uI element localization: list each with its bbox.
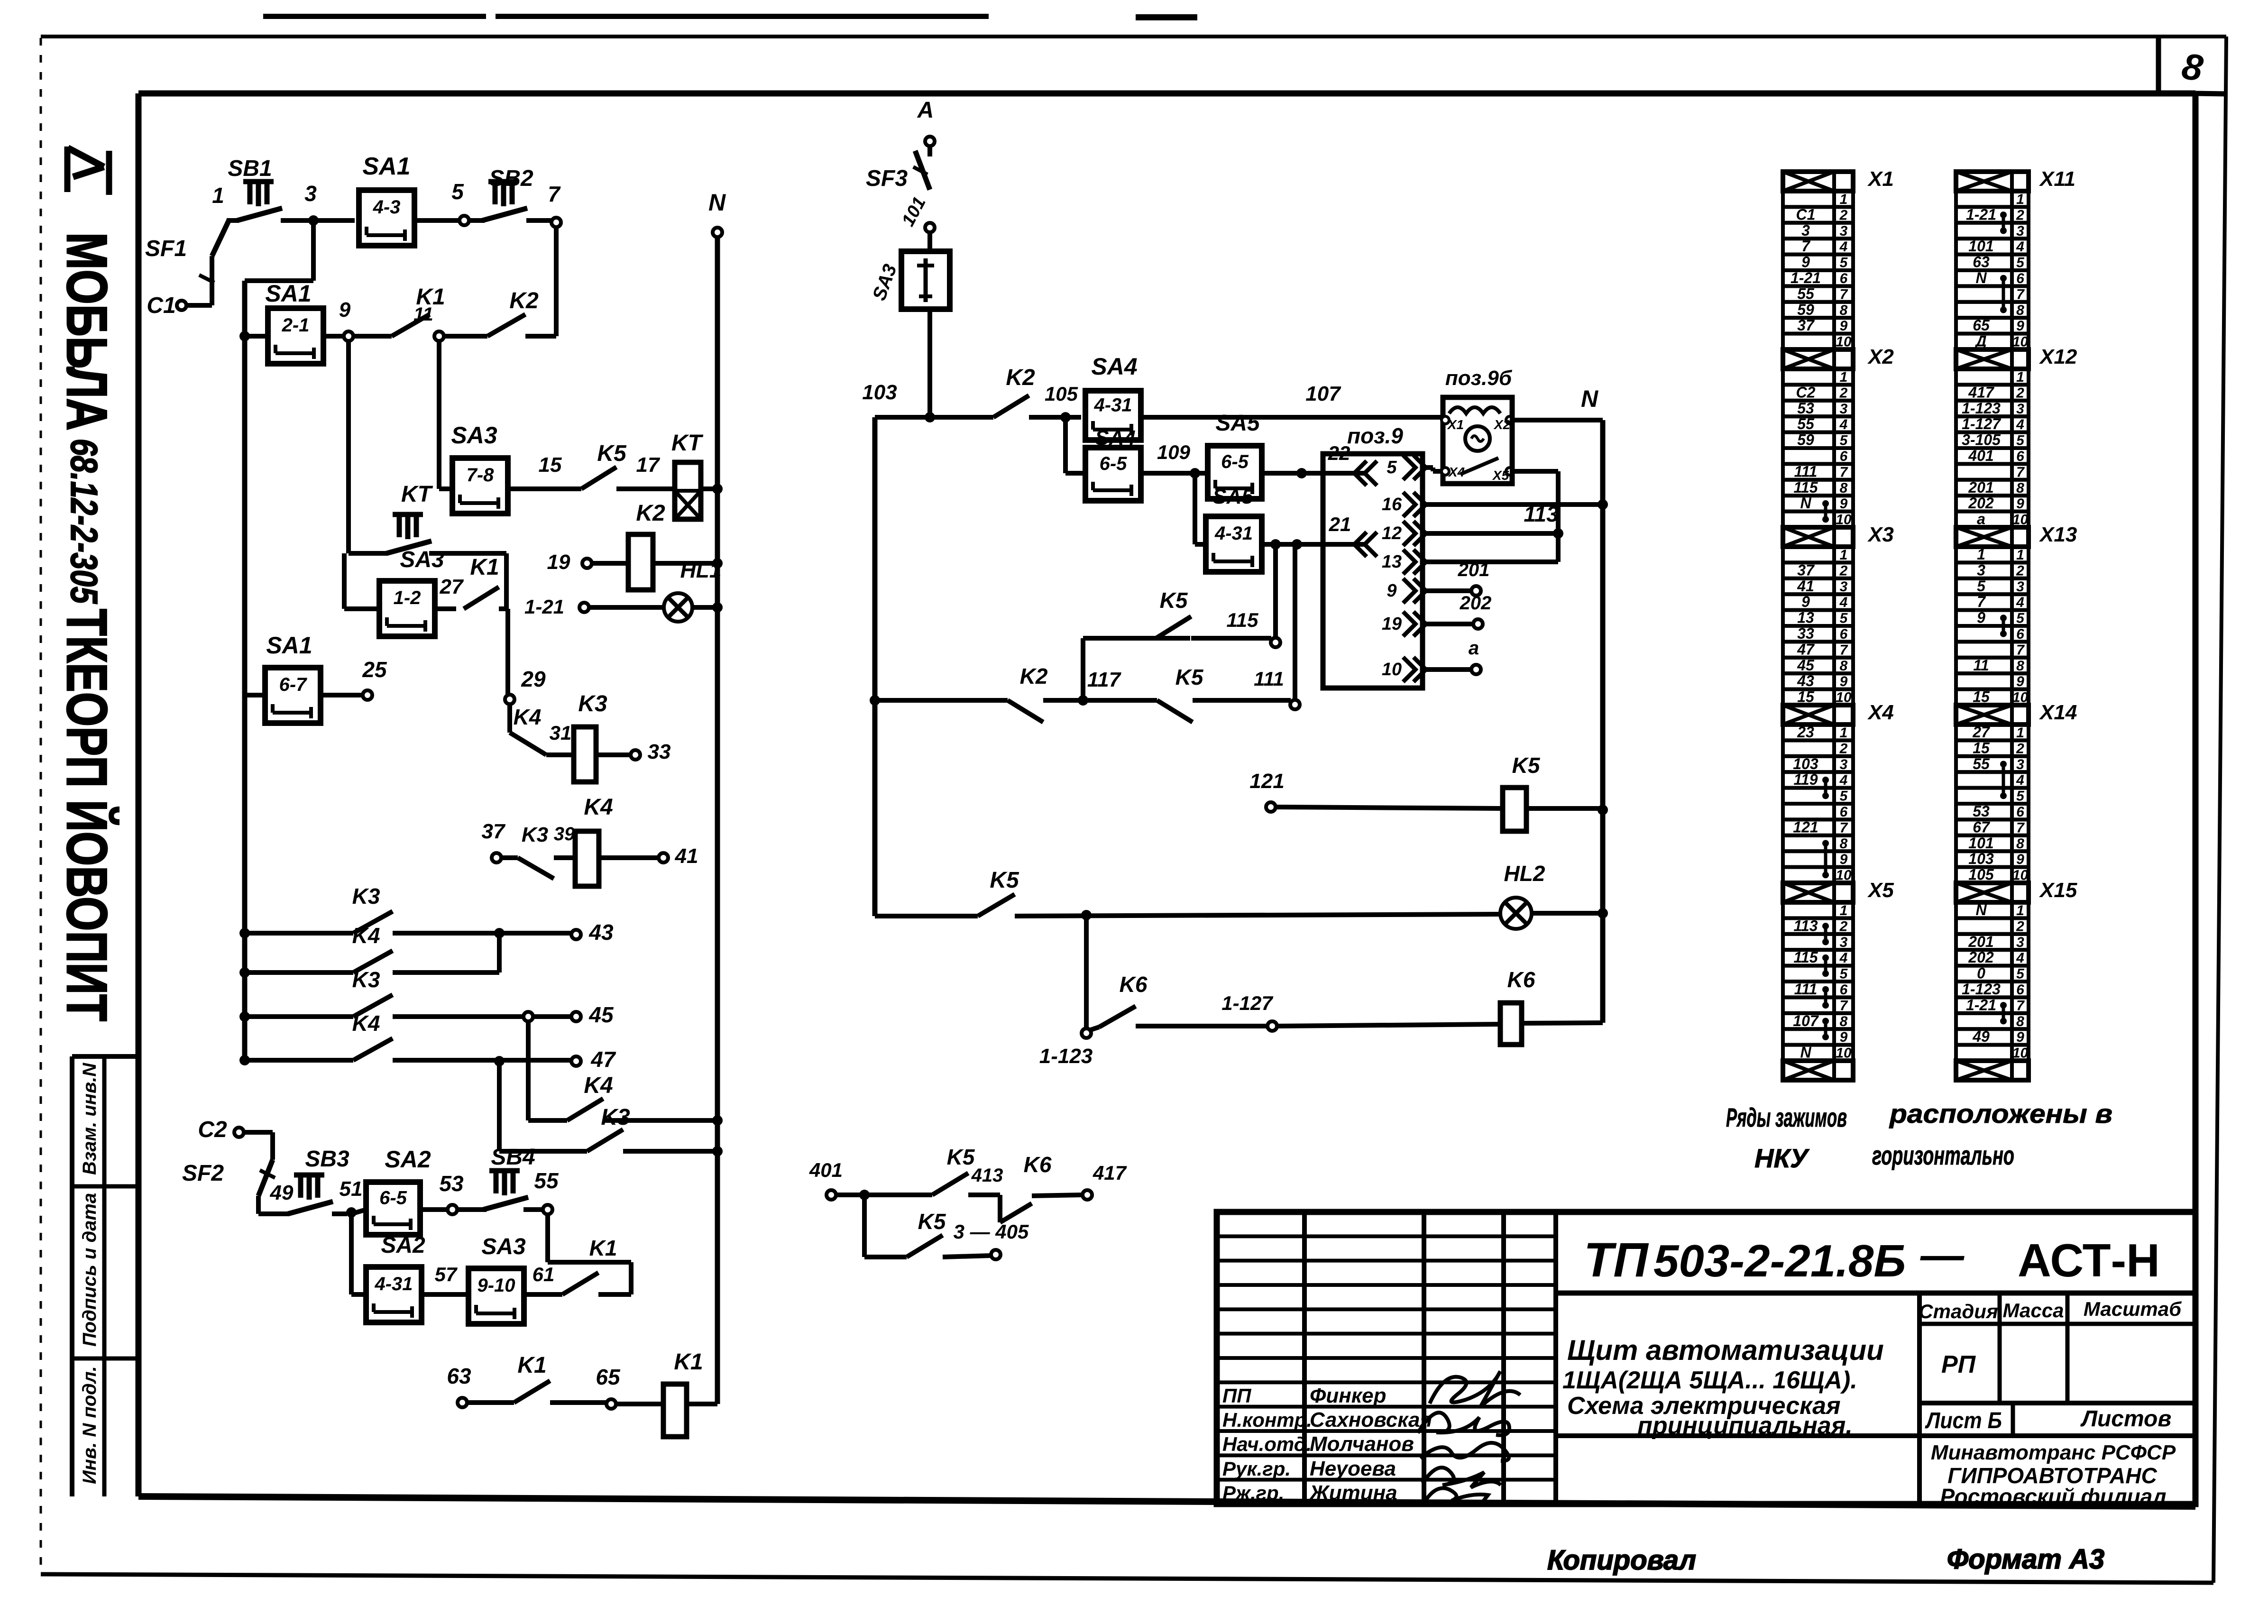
svg-text:SA4: SA4 [1095,426,1136,450]
svg-text:8: 8 [2016,658,2024,674]
svg-text:Минавтотранс РСФСР: Минавтотранс РСФСР [1931,1441,2176,1464]
svg-text:1-127: 1-127 [1221,992,1273,1014]
svg-text:3: 3 [1840,579,1848,595]
svg-text:65: 65 [596,1365,621,1389]
svg-text:2: 2 [2016,207,2024,223]
svg-text:X1: X1 [1867,167,1894,191]
svg-text:5: 5 [2016,789,2025,804]
svg-text:202: 202 [1968,495,1994,512]
svg-text:SA1: SA1 [265,280,311,307]
svg-text:7-8: 7-8 [467,465,495,486]
svg-text:6: 6 [2016,449,2024,464]
svg-text:59: 59 [1797,301,1814,318]
svg-text:N: N [1975,269,1987,286]
svg-text:6: 6 [1840,804,1848,820]
svg-text:5: 5 [1387,458,1397,477]
svg-text:4: 4 [1839,417,1848,432]
svg-text:X4: X4 [1448,465,1465,479]
svg-text:C2: C2 [1796,384,1816,401]
svg-text:9: 9 [1840,674,1848,689]
svg-text:9: 9 [2016,852,2024,867]
svg-text:4: 4 [1839,239,1848,255]
svg-text:23: 23 [1797,724,1814,741]
svg-text:11: 11 [1973,657,1989,674]
svg-text:111: 111 [1794,463,1818,480]
svg-text:101: 101 [1968,835,1993,852]
svg-text:8: 8 [1840,480,1848,496]
svg-text:K2: K2 [636,501,665,526]
svg-text:1-123: 1-123 [1962,400,2001,417]
svg-text:1: 1 [2016,192,2024,207]
svg-text:Взам. инв.N: Взам. инв.N [79,1063,100,1175]
svg-text:1: 1 [2016,903,2024,918]
svg-text:K6: K6 [1120,972,1148,997]
svg-text:7: 7 [1840,464,1848,480]
svg-text:45: 45 [588,1002,614,1027]
svg-text:K1: K1 [517,1353,546,1378]
svg-text:Листов: Листов [2080,1406,2171,1431]
svg-text:4: 4 [1839,595,1848,610]
svg-text:3: 3 [2016,579,2024,595]
svg-text:K3: K3 [352,967,380,992]
svg-text:РП: РП [1941,1351,1976,1378]
svg-text:63: 63 [447,1364,471,1388]
svg-text:5: 5 [2016,966,2025,982]
svg-text:Копировал: Копировал [1547,1545,1696,1576]
svg-text:9-10: 9-10 [477,1275,515,1296]
svg-text:Инв. N подл.: Инв. N подл. [79,1366,100,1484]
svg-text:SA2: SA2 [385,1146,431,1173]
svg-text:33: 33 [648,740,671,763]
svg-text:K3: K3 [352,884,380,908]
svg-text:43: 43 [1797,672,1814,689]
svg-text:5: 5 [1840,255,1848,271]
svg-text:10: 10 [1382,660,1402,679]
svg-text:K5: K5 [1512,753,1541,778]
svg-text:202: 202 [1968,949,1994,966]
svg-text:55: 55 [1797,415,1815,432]
svg-text:X14: X14 [2038,701,2077,724]
svg-text:3: 3 [2016,401,2024,417]
svg-text:9: 9 [1840,318,1848,334]
svg-text:5: 5 [1840,611,1848,626]
svg-text:4: 4 [1839,950,1848,966]
svg-text:поз.9б: поз.9б [1445,367,1513,390]
svg-text:33: 33 [1797,625,1814,642]
svg-text:417: 417 [1093,1162,1127,1184]
svg-text:K4: K4 [352,923,380,948]
svg-text:37: 37 [482,820,506,843]
svg-text:8: 8 [2016,836,2024,852]
svg-text:16: 16 [1382,495,1402,514]
svg-text:47: 47 [590,1047,616,1072]
svg-text:4: 4 [2016,595,2024,610]
svg-text:12: 12 [1382,523,1402,543]
svg-text:27: 27 [440,575,464,598]
svg-text:2: 2 [1839,207,1848,223]
svg-text:6: 6 [1840,982,1848,998]
svg-text:K5: K5 [990,868,1019,893]
svg-text:5: 5 [1840,966,1848,982]
svg-text:7: 7 [2016,286,2025,302]
svg-text:63: 63 [1973,254,1990,271]
svg-text:31: 31 [550,722,572,744]
svg-text:SA4: SA4 [1091,353,1137,380]
svg-text:7: 7 [1977,593,1986,610]
svg-text:2: 2 [2016,918,2024,934]
svg-text:3: 3 [1801,222,1810,239]
svg-text:N: N [708,189,726,216]
svg-text:Молчанов: Молчанов [1310,1432,1414,1456]
svg-text:SA3: SA3 [400,547,444,572]
svg-text:503-2-21.8Б: 503-2-21.8Б [1653,1236,1906,1286]
svg-text:2: 2 [1839,741,1848,756]
svg-text:1-21: 1-21 [1966,206,1996,223]
svg-text:121: 121 [1793,818,1818,835]
svg-text:55: 55 [1797,285,1815,302]
svg-text:5: 5 [1977,578,1986,595]
svg-text:115: 115 [1793,479,1818,496]
svg-text:N: N [1800,495,1811,512]
svg-text:55: 55 [534,1168,559,1193]
svg-text:1: 1 [1840,547,1848,563]
svg-text:9: 9 [2016,318,2024,334]
svg-text:49: 49 [270,1181,294,1204]
svg-text:4: 4 [2016,239,2024,255]
svg-text:4-31: 4-31 [1214,523,1253,544]
svg-text:3: 3 [1840,935,1848,950]
svg-text:43: 43 [588,920,614,945]
svg-text:Ростовский филиал: Ростовский филиал [1940,1484,2167,1509]
svg-text:61: 61 [533,1263,555,1285]
svg-text:Масштаб: Масштаб [2084,1298,2182,1320]
svg-text:K6: K6 [1507,967,1535,992]
svg-text:3: 3 [1840,401,1848,417]
svg-text:57: 57 [435,1263,458,1285]
svg-text:X15: X15 [2038,879,2077,902]
svg-text:9: 9 [1840,852,1848,867]
svg-text:37: 37 [1797,317,1815,334]
svg-text:5: 5 [1840,789,1848,804]
svg-text:0: 0 [1977,965,1985,982]
svg-text:53: 53 [1797,400,1814,417]
svg-text:2: 2 [2016,741,2024,756]
svg-text:ТКЕОРП ЙОВОПИТ: ТКЕОРП ЙОВОПИТ [55,609,119,1021]
svg-text:K2: K2 [1020,664,1048,688]
svg-text:N: N [1581,385,1598,412]
svg-text:4-3: 4-3 [373,197,401,218]
svg-text:3: 3 [1977,561,1985,578]
svg-text:4: 4 [2016,417,2024,432]
svg-text:27: 27 [1972,724,1991,741]
svg-text:1-21: 1-21 [1966,996,1996,1013]
svg-text:1-2: 1-2 [394,587,421,608]
svg-text:9: 9 [1801,254,1810,271]
svg-text:а: а [1469,638,1479,659]
svg-text:SF1: SF1 [145,236,187,261]
svg-text:113: 113 [1524,502,1559,526]
svg-text:6-5: 6-5 [1100,453,1128,474]
svg-text:113: 113 [1793,917,1818,934]
svg-text:K4: K4 [584,1073,613,1098]
svg-text:K1: K1 [589,1236,617,1260]
svg-text:7: 7 [1840,998,1848,1013]
svg-text:2: 2 [1839,563,1848,578]
svg-text:107: 107 [1305,382,1341,405]
svg-text:7: 7 [1840,642,1848,658]
svg-text:9: 9 [1840,496,1848,512]
svg-text:Щит автоматизации: Щит автоматизации [1567,1334,1884,1366]
svg-text:115: 115 [1227,609,1259,631]
svg-text:1-123: 1-123 [1039,1045,1093,1068]
svg-text:8: 8 [1840,836,1848,852]
svg-text:K4: K4 [514,705,542,729]
svg-text:9: 9 [339,298,351,321]
svg-text:Сахновская: Сахновская [1310,1408,1432,1431]
svg-text:201: 201 [1458,560,1490,580]
svg-text:Ряды зажимов: Ряды зажимов [1726,1102,1847,1132]
svg-text:SB2: SB2 [489,166,533,191]
svg-text:1: 1 [2016,725,2024,741]
svg-text:1: 1 [1840,903,1848,918]
svg-text:8: 8 [2016,1014,2024,1029]
svg-text:9: 9 [1801,593,1810,610]
svg-text:X5: X5 [1867,879,1894,902]
svg-text:2: 2 [1839,385,1848,401]
svg-text:K5: K5 [918,1209,946,1234]
svg-text:2: 2 [2016,563,2024,578]
svg-text:7: 7 [2016,820,2025,835]
svg-text:45: 45 [1797,657,1815,674]
svg-text:SA5: SA5 [1212,485,1253,508]
svg-text:1: 1 [2016,547,2024,563]
svg-text:2: 2 [2016,385,2024,401]
svg-text:K6: K6 [1024,1152,1052,1177]
svg-text:9: 9 [1977,609,1985,626]
svg-text:1: 1 [1840,725,1848,741]
svg-text:68.12-2-305: 68.12-2-305 [63,439,105,604]
svg-text:X11: X11 [2038,167,2075,191]
svg-text:117: 117 [1087,668,1122,691]
svg-text:115: 115 [1793,949,1818,966]
svg-text:МОБЬЛА: МОБЬЛА [55,232,119,431]
svg-text:7: 7 [1801,238,1811,255]
svg-text:5: 5 [451,179,464,204]
svg-text:8: 8 [1840,1014,1848,1029]
svg-text:67: 67 [1973,818,1991,835]
svg-text:7: 7 [548,182,561,206]
svg-text:SF2: SF2 [182,1161,224,1186]
svg-text:1: 1 [1840,192,1848,207]
svg-text:111: 111 [1794,981,1818,998]
svg-text:3: 3 [1840,223,1848,239]
svg-text:5: 5 [2016,255,2025,271]
svg-text:K3: K3 [578,691,607,716]
svg-text:11: 11 [413,304,433,325]
svg-text:1-123: 1-123 [1962,981,2001,998]
svg-text:Нач.отд.: Нач.отд. [1222,1433,1312,1455]
svg-text:6-7: 6-7 [279,674,308,695]
svg-text:6: 6 [2016,804,2024,820]
svg-text:SB3: SB3 [305,1147,349,1172]
svg-text:101: 101 [1968,238,1993,255]
svg-text:KT: KT [401,482,433,507]
svg-text:13: 13 [1382,552,1402,572]
svg-text:Финкер: Финкер [1310,1384,1386,1407]
svg-text:3: 3 [2016,935,2024,950]
svg-text:37: 37 [1797,561,1815,578]
svg-text:9: 9 [2016,496,2024,512]
svg-text:5: 5 [2016,611,2025,626]
svg-text:8: 8 [2016,480,2024,496]
svg-text:SA5: SA5 [1215,411,1260,436]
svg-text:Неуоева: Неуоева [1310,1457,1396,1480]
svg-text:59: 59 [1797,431,1814,449]
svg-text:65: 65 [1973,317,1990,334]
svg-text:7: 7 [2016,998,2025,1013]
svg-text:7: 7 [2016,464,2025,480]
svg-text:19: 19 [1382,614,1402,634]
svg-text:51: 51 [340,1177,363,1201]
svg-text:3: 3 [1840,757,1848,772]
svg-text:119: 119 [1793,771,1818,788]
svg-text:201: 201 [1968,479,1993,496]
svg-text:C1: C1 [147,293,175,318]
svg-text:горизонтально: горизонтально [1872,1140,2014,1170]
svg-text:X3: X3 [1867,523,1894,546]
svg-text:X2: X2 [1867,345,1894,368]
svg-text:X12: X12 [2038,345,2077,368]
svg-text:2: 2 [1839,918,1848,934]
svg-text:39: 39 [554,824,575,844]
svg-text:X4: X4 [1867,701,1894,724]
svg-text:21: 21 [1329,513,1351,535]
svg-text:202: 202 [1460,593,1492,614]
svg-text:—: — [1920,1231,1965,1279]
svg-text:K3: K3 [601,1105,630,1130]
svg-text:1: 1 [2016,369,2024,385]
svg-text:1-21: 1-21 [524,596,564,618]
svg-text:Житина: Житина [1309,1481,1397,1505]
svg-text:SB4: SB4 [491,1145,535,1170]
svg-text:201: 201 [1968,933,1993,950]
svg-text:SA1: SA1 [266,632,312,659]
svg-text:SA1: SA1 [362,153,410,180]
svg-text:5: 5 [1840,433,1848,449]
svg-text:KT: KT [671,431,704,456]
svg-text:SF3: SF3 [866,166,908,191]
svg-text:Подпись и дата: Подпись и дата [79,1193,100,1347]
svg-text:3: 3 [304,181,317,206]
svg-text:N: N [1975,901,1987,918]
svg-text:401: 401 [1968,447,1993,464]
svg-text:55: 55 [1973,755,1990,772]
svg-text:поз.9: поз.9 [1347,423,1403,448]
svg-text:Рук.гр.: Рук.гр. [1222,1458,1291,1480]
svg-text:C2: C2 [198,1117,227,1142]
svg-text:8: 8 [1840,303,1848,318]
svg-text:109: 109 [1157,441,1191,463]
svg-text:K1: K1 [674,1349,703,1375]
svg-text:K4: K4 [352,1011,380,1036]
svg-text:15: 15 [539,453,562,477]
svg-text:13: 13 [1797,609,1814,626]
svg-text:111: 111 [1254,668,1284,690]
svg-text:6: 6 [1840,626,1848,642]
svg-text:25: 25 [362,657,387,682]
svg-text:7: 7 [1840,820,1848,835]
svg-text:53: 53 [439,1171,464,1196]
svg-text:103: 103 [862,381,897,404]
svg-text:3: 3 [2016,757,2024,772]
svg-text:4: 4 [1839,772,1848,788]
svg-text:ТП: ТП [1584,1233,1649,1287]
svg-text:Н.контр.: Н.контр. [1222,1409,1312,1431]
svg-text:41: 41 [675,844,698,868]
svg-text:X2: X2 [1493,417,1511,432]
svg-text:K3: K3 [522,823,548,846]
svg-text:6: 6 [2016,982,2024,998]
svg-text:HL1: HL1 [680,558,722,582]
svg-text:15: 15 [1973,739,1990,756]
svg-text:413: 413 [971,1165,1003,1186]
svg-text:расположены в: расположены в [1889,1099,2112,1129]
svg-text:K2: K2 [509,288,539,313]
svg-text:41: 41 [1797,578,1814,595]
svg-text:6: 6 [1840,271,1848,286]
svg-text:K5: K5 [597,441,627,466]
svg-text:9: 9 [2016,674,2024,689]
svg-text:3: 3 [2016,223,2024,239]
svg-text:6-5: 6-5 [379,1188,407,1209]
svg-text:K5: K5 [1160,588,1188,613]
svg-text:ПП: ПП [1222,1385,1251,1407]
svg-text:HL2: HL2 [1504,861,1545,886]
svg-text:SA3: SA3 [451,422,497,449]
svg-text:103: 103 [1968,850,1994,867]
svg-text:Формат А3: Формат А3 [1947,1544,2104,1575]
svg-text:K4: K4 [584,795,613,820]
svg-text:8: 8 [1840,658,1848,674]
svg-text:X13: X13 [2038,523,2077,546]
svg-text:K5: K5 [1175,665,1204,689]
svg-text:29: 29 [521,667,546,691]
svg-text:3 — 405: 3 — 405 [954,1220,1029,1243]
svg-text:401: 401 [809,1159,843,1181]
svg-text:105: 105 [1045,383,1078,405]
svg-text:Рж.гр.: Рж.гр. [1222,1482,1284,1504]
svg-text:K2: K2 [1006,365,1035,390]
svg-text:A: A [917,98,934,123]
svg-text:Стадия: Стадия [1919,1300,1998,1322]
svg-text:4: 4 [2016,950,2024,966]
svg-text:9: 9 [1387,581,1396,601]
svg-text:2-1: 2-1 [282,315,310,336]
svg-text:19: 19 [547,551,570,574]
svg-text:X1: X1 [1447,417,1464,432]
svg-text:6: 6 [1840,449,1848,464]
svg-text:K1: K1 [470,555,499,580]
svg-text:1-127: 1-127 [1962,415,2002,432]
svg-text:1: 1 [1977,546,1985,563]
svg-text:53: 53 [1973,803,1990,820]
svg-text:417: 417 [1968,384,1995,401]
svg-text:49: 49 [1972,1028,1990,1045]
svg-text:Масса: Масса [2003,1299,2064,1321]
svg-text:3-105: 3-105 [1962,431,2001,449]
svg-text:9: 9 [2016,1029,2024,1045]
svg-text:4-31: 4-31 [1093,395,1132,416]
